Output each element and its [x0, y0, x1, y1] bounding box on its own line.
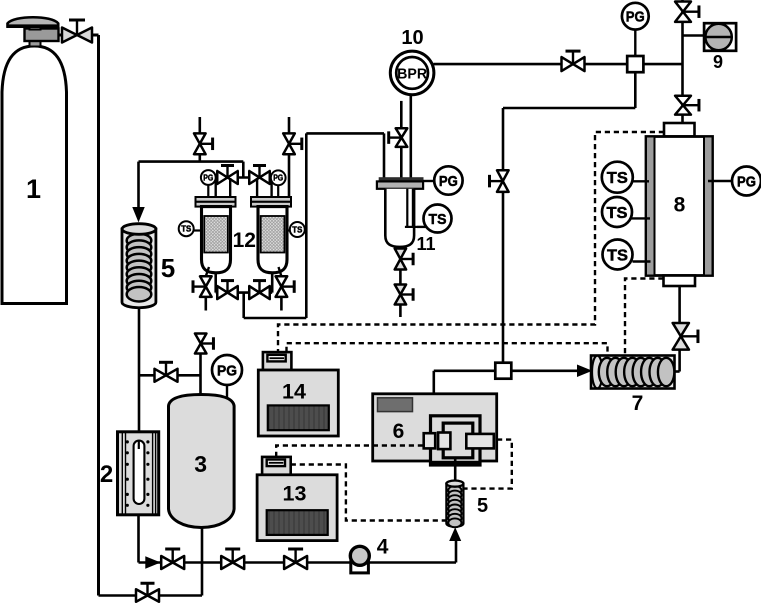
- wire: branch to vessel 3 inlet: [139, 374, 201, 377]
- wire: crossover legs to flange B: [256, 178, 258, 197]
- svg-text:10: 10: [401, 27, 423, 49]
- crossover valve L (bottom): [217, 281, 238, 300]
- wire: vent stub above valve B: [288, 117, 291, 133]
- column A body (item 12): [202, 207, 231, 273]
- dashed line: column 8 bottom to coil 7: [625, 279, 664, 357]
- vessel 11 flange: [377, 177, 424, 189]
- water bath 13: [257, 457, 337, 541]
- wire: lower drain line: [99, 594, 203, 597]
- svg-text:PG: PG: [439, 173, 458, 190]
- wire: feed line into top coil 5: [139, 160, 244, 163]
- drain valve 2 under vessel 11: [395, 285, 413, 305]
- column 8 top flange: [664, 123, 695, 137]
- svg-text:2: 2: [100, 461, 113, 488]
- view cell window assembly: [424, 416, 494, 466]
- wire: valve B down to flange B: [288, 154, 291, 197]
- wire: valve to coil 7: [678, 350, 681, 372]
- svg-text:TS: TS: [429, 211, 447, 228]
- vent valve at top of right riser: [675, 2, 699, 22]
- arrow into coil 7: [578, 365, 592, 376]
- wire: junction to coil 7 inlet: [511, 369, 578, 372]
- wire: column 8 bottom to valve: [678, 286, 681, 323]
- wire: feed drop from line into top crossover: [242, 162, 245, 178]
- gas cylinder 1: [2, 17, 67, 303]
- crossover valve R (top): [249, 166, 270, 185]
- valve on vessel 3 inlet branch: [155, 362, 178, 382]
- arrow up into bottom coil 5: [450, 529, 461, 541]
- wire: vent stub above valve A: [199, 117, 202, 133]
- temperature sensor TS-B (column B): [287, 229, 290, 231]
- svg-text:9: 9: [713, 52, 723, 72]
- wire: BPR down to vessel 11 flange: [409, 95, 412, 178]
- wire: crossover legs to flange A: [214, 178, 216, 197]
- wire: vessel 11 drain: [399, 247, 402, 249]
- dashed line: bath 13 to bottom coil 5 (left): [291, 465, 447, 521]
- wire: view cell to bottom coil 5: [454, 458, 457, 481]
- vessel 3: [169, 395, 235, 528]
- pressure gauge PG on vessel 3: [226, 385, 228, 401]
- arrow on main line: [146, 557, 160, 568]
- dashed line: view cell 6 to bottom coil 5 (right): [464, 440, 512, 489]
- column 8 bottom flange: [664, 276, 696, 287]
- svg-text:TS: TS: [607, 205, 628, 222]
- arrow into top coil 5: [133, 208, 144, 222]
- drain valve 1 under vessel 11: [395, 249, 413, 270]
- wire: vessel 3 top stem: [199, 354, 202, 396]
- valve V1 on main line: [161, 549, 184, 569]
- temperature sensor TS2 (column 8): [631, 217, 650, 219]
- view cell unit 6: [373, 394, 497, 461]
- svg-text:7: 7: [632, 392, 644, 415]
- svg-text:TS: TS: [607, 170, 628, 187]
- dashed line: column 8 jacket to bath 14: [278, 132, 664, 352]
- temperature sensor TS3 (column 8): [633, 260, 651, 262]
- svg-text:4: 4: [377, 536, 389, 559]
- wire: riser from columns 12 to collection line: [305, 133, 308, 318]
- valve on vessel 11 vent line: [389, 128, 408, 147]
- junction fitting (center): [495, 363, 511, 379]
- svg-text:3: 3: [194, 451, 207, 477]
- vent valve A (left, item 12): [194, 133, 213, 154]
- wire: left downpipe from cylinder valve to bottom return line: [97, 35, 100, 596]
- svg-text:PG: PG: [217, 362, 237, 379]
- valve on lower drain line: [136, 583, 159, 602]
- svg-text:TS: TS: [607, 247, 628, 264]
- valve on column 8 feed: [675, 96, 699, 115]
- svg-text:TS: TS: [181, 225, 192, 234]
- wire: valve A down to feed line: [199, 154, 202, 161]
- wire: vessel 11 vent line with valve: [400, 101, 403, 128]
- wire: junction bottom to recycle line: [634, 72, 637, 108]
- pressure gauge PG above junction: [634, 30, 636, 56]
- wire: main pump suction line: [139, 561, 457, 564]
- svg-text:5: 5: [477, 495, 488, 517]
- column B flange: [251, 197, 291, 207]
- svg-text:PG: PG: [203, 173, 213, 182]
- rupture disc / safety device 9: [704, 23, 736, 51]
- wire: junction to view cell 6: [434, 369, 496, 372]
- svg-text:PG: PG: [273, 174, 283, 183]
- junction fitting (top): [627, 56, 643, 72]
- svg-text:11: 11: [417, 234, 436, 254]
- column A flange: [196, 197, 236, 207]
- cooling coil 7: [591, 356, 675, 389]
- valve V2 on main line: [221, 549, 244, 569]
- crossover valve L (top): [217, 166, 238, 185]
- valve V3 on main line: [284, 549, 307, 569]
- drain valve under column B: [279, 267, 282, 276]
- svg-text:6: 6: [393, 420, 405, 443]
- wire: BPR outlet to junction: [434, 63, 628, 66]
- wire: main line up into bottom coil 5: [455, 539, 458, 563]
- water bath 14: [258, 352, 338, 436]
- valve on BPR outlet line: [562, 51, 585, 71]
- wire: sight gauge 2 to main pump line: [137, 515, 140, 563]
- column 8 body: [646, 137, 713, 276]
- wire: riser down to view-cell junction: [502, 192, 505, 363]
- dashed line: bath 14 to coil 7: [287, 343, 608, 356]
- valve on view-cell riser: [490, 170, 509, 192]
- wire: right riser (column 8 feed): [681, 0, 684, 123]
- svg-text:5: 5: [161, 253, 175, 283]
- heat-exchanger coil 5 (bottom): [446, 481, 463, 528]
- wire: recycle line to view-cell junction riser: [503, 107, 635, 110]
- column B body (item 12): [258, 207, 287, 273]
- pressure gauge PG on vessel 11: [423, 180, 435, 182]
- vent valve B (right, item 12): [283, 133, 302, 154]
- valve under column 8: [673, 323, 698, 350]
- pressure gauge PG (column 8): [708, 180, 733, 182]
- dashed line: bath 13 to view cell 6: [276, 446, 424, 457]
- wire: line to vessel 11 flange: [306, 132, 384, 135]
- vessel 11 body: [385, 189, 417, 247]
- svg-text:13: 13: [283, 482, 307, 506]
- pump 4: [350, 546, 369, 573]
- wire: junction to right riser: [643, 63, 682, 66]
- pressure gauge PG-B (column B): [277, 185, 279, 197]
- svg-text:TS: TS: [292, 225, 303, 234]
- wire: cylinder head to valve and downpipe: [58, 34, 99, 37]
- svg-text:1: 1: [26, 174, 41, 204]
- wire: vessel 3 bottom outlet down to drain line: [201, 528, 204, 596]
- temperature sensor TS1 (column 8): [633, 180, 650, 182]
- crossover valve R (bottom): [249, 281, 270, 300]
- svg-text:PG: PG: [737, 173, 756, 190]
- heat-exchanger coil 5 (top): [122, 224, 156, 308]
- pressure gauge PG-A (column A): [207, 185, 209, 197]
- wire: crossover drop to transfer line: [242, 293, 245, 318]
- temperature sensor TS-A (column A): [194, 229, 202, 231]
- sight gauge 2: [118, 432, 159, 515]
- drain valve under column A: [206, 267, 209, 276]
- wire: transfer line to riser: [244, 317, 307, 320]
- vent valve above vessel 3: [195, 334, 214, 354]
- svg-text:BPR: BPR: [397, 66, 428, 82]
- back-pressure regulator BPR 10: [390, 51, 434, 95]
- svg-text:8: 8: [674, 194, 686, 217]
- temperature sensor TS on vessel 11: [417, 226, 427, 228]
- wire: bottom crossover between columns 12: [214, 272, 217, 292]
- valve on cylinder outlet: [62, 20, 92, 43]
- svg-text:14: 14: [282, 380, 306, 404]
- wire: branch to rupture disc 9: [683, 34, 705, 37]
- wire: coil 5 down to sight-gauge 2: [138, 307, 141, 432]
- svg-text:12: 12: [233, 229, 256, 252]
- wire: top crossover between columns 12: [216, 176, 271, 179]
- svg-text:PG: PG: [626, 9, 645, 26]
